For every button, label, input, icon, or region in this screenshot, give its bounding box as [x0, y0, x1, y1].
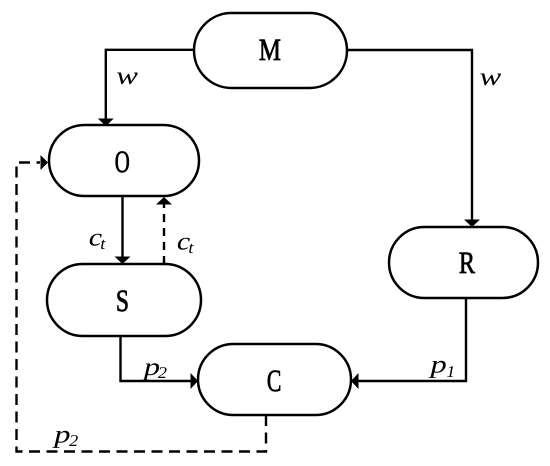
svg-text:w: w [116, 63, 138, 90]
svg-text:2: 2 [69, 431, 78, 450]
node R [389, 227, 538, 298]
label p_2 (bottom) [52, 422, 71, 449]
svg-text:O: O [115, 144, 130, 179]
arrowhead into O top [98, 119, 114, 127]
wire M to R (right, solid) [347, 50, 472, 220]
arrowhead into S top [115, 257, 131, 265]
wire R to C (solid) [358, 298, 466, 381]
node C [198, 344, 351, 415]
svg-text:C: C [267, 363, 281, 398]
label p_2 (middle) [141, 354, 160, 381]
svg-text:1: 1 [446, 362, 455, 381]
wire C to O feedback (dashed) [17, 163, 267, 452]
arrowhead into R top [464, 220, 480, 228]
label w (right) [480, 64, 502, 91]
svg-text:S: S [116, 283, 129, 318]
node M [194, 13, 347, 88]
svg-text:w: w [480, 64, 502, 91]
arrowhead into C left [191, 373, 199, 389]
label c_t (right) [177, 229, 190, 256]
svg-text:2: 2 [158, 363, 167, 382]
svg-text:t: t [188, 238, 194, 257]
label p_1 [428, 352, 447, 379]
svg-text:p: p [52, 422, 71, 449]
arrowhead into C right [351, 373, 359, 389]
label w (left) [116, 63, 138, 90]
wire O to S (solid) [121, 196, 123, 257]
wire M to O (left, solid) [106, 50, 194, 119]
svg-text:p: p [428, 352, 447, 379]
svg-text:t: t [100, 234, 106, 253]
node S [47, 264, 201, 336]
arrowhead into O bottom [156, 197, 172, 205]
arrowhead into O left [41, 155, 49, 170]
label c_t (left) [89, 224, 102, 251]
node O [49, 125, 199, 196]
wire S to O (dashed) [163, 204, 165, 264]
svg-text:R: R [459, 245, 475, 280]
wire S to C (solid) [121, 336, 192, 381]
svg-text:M: M [259, 32, 281, 67]
